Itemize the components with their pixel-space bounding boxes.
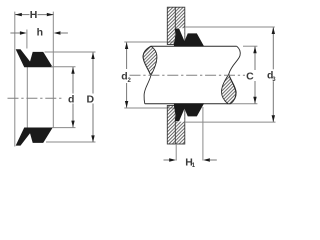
seal bottom (right figure, mirrored) [174, 104, 203, 121]
dimension H line [15, 14, 30, 16]
dimension d line [72, 67, 74, 94]
wire: d3 top extension line [185, 26, 275, 28]
svg-text:3: 3 [272, 77, 276, 83]
wire: C bottom extension segment [228, 103, 257, 105]
arrow H1 right (pointing left) [203, 158, 210, 161]
svg-text:H: H [30, 9, 38, 21]
shaft left break line [143, 46, 151, 104]
dimension h right tail [60, 32, 68, 34]
seal cross-section lower half (left figure, mirrored) [16, 128, 52, 145]
wire: d2 bottom extension line [124, 107, 174, 109]
svg-text:d: d [68, 93, 74, 105]
wire: d bottom extension line [53, 127, 76, 129]
svg-text:2: 2 [128, 78, 132, 84]
wire: D top extension line [45, 51, 96, 53]
wire: H1 right extension line [202, 107, 204, 161]
shaft left break hatched lobe [143, 46, 157, 75]
dimension d3 line [272, 27, 274, 69]
wire: housing wall bottom internal line [174, 106, 176, 145]
dimension H1 right tail [210, 159, 217, 161]
wire: h left extension line lower [26, 67, 28, 128]
wire: d top extension line [51, 66, 76, 68]
shaft top edge [151, 45, 237, 47]
wire: d2 top extension line [124, 41, 174, 43]
arrow h left (outside, pointing right) [20, 31, 27, 34]
arrow C top [253, 46, 256, 53]
arrow d bottom [71, 121, 74, 128]
svg-text:C: C [246, 71, 254, 83]
arrow d2 bottom [125, 101, 128, 108]
svg-text:1: 1 [192, 163, 196, 169]
seal top (right figure) [174, 29, 203, 46]
wire: D bottom extension line [46, 141, 96, 143]
wire: H/h shared right extension line [52, 12, 54, 128]
svg-text:h: h [37, 27, 43, 39]
shaft right break line [229, 46, 241, 104]
dimension D line [92, 52, 94, 93]
arrow D top [91, 52, 94, 59]
dimension d2 line [126, 42, 128, 69]
arrow d top [71, 67, 74, 74]
centerline left figure (dash-dot) [8, 97, 63, 99]
dimension h left tail [10, 32, 20, 34]
shaft right break hatched lobe [221, 74, 236, 104]
shaft bottom edge [145, 103, 228, 105]
wire: housing wall top internal line [174, 7, 176, 44]
arrow h right (outside, pointing left) [54, 31, 61, 34]
white clearance for seal (top) [176, 28, 185, 44]
arrow H left [15, 13, 22, 16]
wire: h left extension line upper [26, 30, 28, 49]
arrow D bottom [91, 135, 94, 142]
housing wall bottom [167, 106, 185, 145]
svg-text:D: D [87, 93, 95, 105]
arrow d2 top [125, 42, 128, 49]
housing wall top [167, 7, 185, 44]
arrow d3 top [272, 27, 275, 34]
dimension H1 left tail [164, 159, 171, 161]
arrow d3 bottom [272, 115, 275, 122]
seal cross-section upper half (left figure) [16, 50, 52, 67]
arrow H1 left (pointing right) [169, 158, 176, 161]
wire: d3 bottom extension line [185, 121, 276, 123]
dimension C line [254, 46, 256, 70]
wire: C top extension segment [243, 45, 257, 47]
wire: H left extension line [14, 12, 16, 147]
white clearance for seal (bottom) [176, 106, 185, 122]
arrow H right [47, 13, 54, 16]
centerline right figure (dash-dot) [130, 74, 246, 76]
wire: H1 left extension line [175, 144, 177, 161]
arrow C bottom [253, 97, 256, 104]
